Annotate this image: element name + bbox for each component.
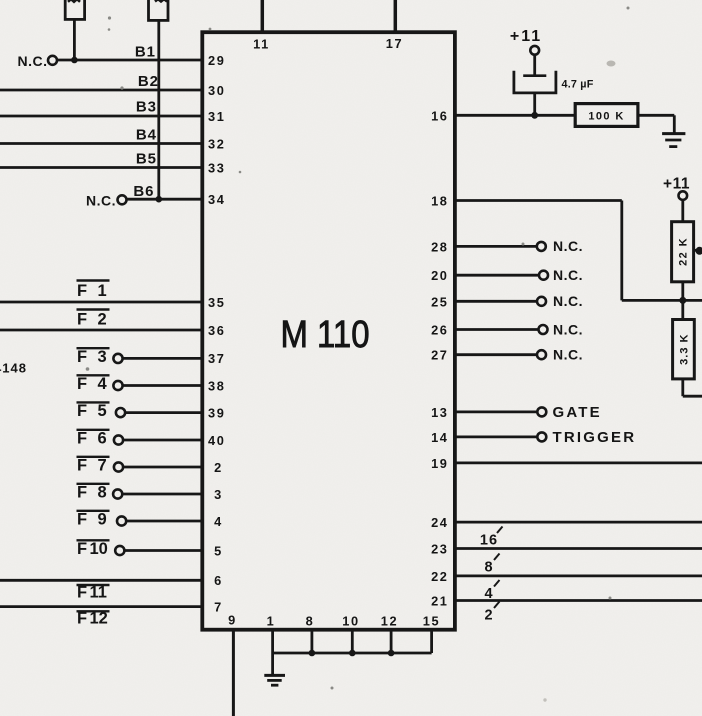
wire pin 16 to resistor R3 — [456, 114, 575, 117]
svg-text:23: 23 — [431, 542, 448, 557]
wire pin 8 stub — [310, 630, 313, 653]
svg-text:22: 22 — [431, 569, 448, 584]
wire pin N.C. row 3 — [456, 300, 537, 303]
resistor R5 3.3K body — [673, 320, 695, 379]
wire pin N.C. row 4 — [456, 328, 539, 331]
wire R5 to right edge — [681, 379, 684, 396]
svg-text:15: 15 — [423, 614, 440, 629]
svg-text:TRIGGER: TRIGGER — [553, 429, 637, 446]
wire stub from R4 to right edge — [694, 249, 702, 252]
wire R3 to ground — [638, 114, 674, 117]
svg-text:12: 12 — [381, 614, 398, 629]
resistor R3 100K body — [575, 104, 638, 127]
wire pin 11 (top) — [261, 0, 265, 33]
terminal N.C. circle at B1 — [48, 56, 57, 65]
svg-text:8: 8 — [484, 560, 493, 576]
junction pin12/bus — [388, 650, 395, 657]
terminal circle F10 — [115, 546, 124, 555]
wire pin N.C. row 1 — [456, 245, 537, 248]
svg-text:29: 29 — [208, 53, 225, 68]
svg-text:N.C.: N.C. — [86, 193, 116, 209]
terminal N.C. circle row 4 — [539, 325, 548, 334]
svg-text:M 110: M 110 — [281, 314, 370, 356]
svg-text:26: 26 — [431, 323, 448, 338]
wire B1 to pin 29 — [57, 59, 204, 62]
svg-text:N.C.: N.C. — [553, 293, 583, 309]
svg-text:16: 16 — [480, 533, 498, 549]
wire pin 24 to right edge — [456, 521, 702, 524]
ground GND1 — [662, 132, 685, 135]
wire pin 19 to right edge — [456, 461, 702, 464]
capacitor C1 top plate — [523, 74, 546, 77]
svg-text:8: 8 — [306, 614, 315, 629]
terminal circle F3 — [113, 354, 122, 363]
svg-text:11: 11 — [253, 37, 270, 52]
wire R4 to divider node — [681, 282, 684, 320]
svg-text:16: 16 — [431, 108, 448, 123]
resistor R2 label remnant — [155, 0, 167, 2]
terminal circle F7 — [114, 462, 123, 471]
svg-text:13: 13 — [431, 405, 448, 420]
svg-text:+11: +11 — [510, 28, 542, 45]
terminal circle F8 — [113, 489, 122, 498]
svg-text:20: 20 — [431, 268, 448, 283]
svg-text:25: 25 — [431, 294, 448, 309]
svg-text:24: 24 — [431, 515, 448, 530]
svg-text:22 K: 22 K — [678, 237, 690, 266]
terminal +11 top circle — [530, 46, 539, 55]
wire R2 down to node B6 — [157, 20, 160, 199]
wire F5 to IC — [125, 411, 204, 414]
wire bus to ground — [271, 653, 274, 675]
capacitor C1 bottom cup — [514, 71, 556, 93]
svg-text:40: 40 — [208, 433, 225, 448]
wire +11 to R4 — [681, 200, 684, 222]
wire F9 to IC — [126, 520, 204, 523]
terminal circle F4 — [113, 381, 122, 390]
wire F10 to IC — [124, 549, 204, 552]
wire F3 to IC — [123, 357, 204, 360]
svg-text:35: 35 — [208, 295, 225, 310]
resistor R1 label remnant — [68, 0, 80, 2]
svg-text:F10: F10 — [77, 540, 108, 558]
svg-text:5: 5 — [214, 543, 223, 558]
svg-text:14: 14 — [431, 430, 448, 445]
svg-text:N.C.: N.C. — [18, 53, 48, 69]
resistor R1 (top left, cut off at top) — [65, 0, 84, 19]
svg-text:3: 3 — [214, 487, 223, 502]
wire F2 to IC — [0, 329, 204, 332]
svg-text:31: 31 — [208, 109, 225, 124]
svg-text:10: 10 — [342, 614, 359, 629]
svg-text:27: 27 — [431, 348, 448, 363]
wire pin 15 stub — [430, 630, 433, 653]
wire B4 to pin 32 — [0, 142, 204, 145]
wire pin 18 route — [456, 199, 622, 202]
junction R1/B1 — [71, 57, 78, 64]
svg-text:B4: B4 — [136, 127, 157, 144]
junction pin10/bus — [349, 650, 356, 657]
wire pin 1 stub — [271, 630, 274, 653]
wire pin N.C. row 5 — [456, 353, 537, 356]
resistor R4 22K body — [672, 222, 694, 282]
svg-text:39: 39 — [208, 405, 225, 420]
ground GND2 — [264, 674, 285, 677]
svg-text:B1: B1 — [135, 44, 156, 61]
svg-text:1: 1 — [267, 614, 276, 629]
wire B5 to pin 33 — [0, 166, 204, 169]
svg-text:100 K: 100 K — [588, 110, 624, 122]
svg-text:3.3 K: 3.3 K — [679, 334, 691, 365]
svg-text:28: 28 — [431, 239, 448, 254]
terminal circle F5 — [116, 408, 125, 417]
terminal circle F6 — [114, 435, 123, 444]
junction R2/B6 — [156, 196, 163, 203]
svg-text:2: 2 — [484, 608, 493, 624]
svg-text:30: 30 — [208, 83, 225, 98]
svg-text:GATE: GATE — [553, 404, 602, 421]
svg-text:33: 33 — [208, 160, 225, 175]
terminal N.C. circle row 3 — [537, 297, 546, 306]
svg-text:B2: B2 — [138, 73, 159, 90]
wire GATE pin 13 — [456, 410, 538, 413]
speck marks (scan noise) — [86, 7, 630, 702]
svg-text:36: 36 — [208, 323, 225, 338]
svg-text:32: 32 — [208, 136, 225, 151]
terminal circle F9 — [117, 516, 126, 525]
wire F7 to IC — [123, 466, 204, 469]
svg-text:B6: B6 — [133, 183, 154, 200]
wire F8 to IC — [122, 493, 204, 496]
terminal GATE circle — [537, 407, 546, 416]
wire B3 to pin 31 — [0, 115, 204, 118]
svg-text:N.C.: N.C. — [553, 267, 583, 283]
wire B6 to pin 34 — [126, 198, 204, 201]
wire pin 22 to right edge — [456, 575, 702, 578]
svg-text:4: 4 — [214, 514, 223, 529]
wire pin 21 to right edge — [456, 599, 702, 602]
junction at right edge — [696, 247, 702, 255]
svg-text:B5: B5 — [136, 151, 157, 168]
svg-text:37: 37 — [208, 351, 225, 366]
svg-text:17: 17 — [386, 36, 403, 51]
svg-text:18: 18 — [431, 194, 448, 209]
svg-text:34: 34 — [208, 192, 225, 207]
junction divider node — [679, 297, 686, 304]
terminal TRIGGER circle — [537, 432, 546, 441]
svg-text:N.C.: N.C. — [553, 238, 583, 254]
wire C1 to node 16 — [533, 93, 536, 115]
svg-text:6: 6 — [214, 573, 223, 588]
wire pin 17 (top) — [394, 0, 398, 33]
wire F6 to IC — [123, 439, 204, 442]
resistor R2 (top, cut off at top) — [149, 0, 169, 20]
terminal N.C. circle at B6 — [118, 195, 127, 204]
wire +11 to capacitor C1 — [533, 55, 536, 75]
svg-text:19: 19 — [431, 456, 448, 471]
wire pin 23 to right edge — [456, 547, 702, 550]
wire pin N.C. row 2 — [456, 274, 539, 277]
IC U1 M110 body — [202, 32, 455, 630]
svg-text:38: 38 — [208, 378, 225, 393]
wire F12 to IC — [0, 605, 204, 608]
wire R1 to node B1 — [73, 19, 76, 60]
terminal N.C. circle row 2 — [539, 271, 548, 280]
svg-text:9: 9 — [228, 613, 237, 628]
wire F1 to IC — [0, 301, 204, 304]
wire B2 to pin 30 — [0, 89, 204, 92]
wire F4 to IC — [123, 384, 204, 387]
junction C1 on pin16 wire — [531, 112, 538, 119]
wire pin 12 stub — [390, 630, 393, 653]
svg-text:7: 7 — [214, 599, 223, 614]
svg-text:N.C.: N.C. — [553, 321, 583, 337]
wire pin 9 to bottom edge — [232, 630, 235, 716]
wire TRIGGER pin 14 — [456, 435, 538, 438]
terminal N.C. circle row 1 — [537, 242, 546, 251]
svg-text:4: 4 — [484, 586, 493, 602]
svg-text:B3: B3 — [136, 99, 157, 116]
svg-text:N.C.: N.C. — [553, 347, 583, 363]
wire F11 to IC — [0, 579, 204, 582]
svg-text:4148: 4148 — [0, 361, 27, 376]
svg-text:4.7 µF: 4.7 µF — [562, 79, 594, 91]
terminal N.C. circle row 5 — [537, 350, 546, 359]
svg-text:+11: +11 — [663, 176, 690, 193]
wire ground bus — [273, 652, 432, 655]
svg-text:2: 2 — [214, 460, 223, 475]
wire pin 10 stub — [351, 630, 354, 653]
junction pin8/bus — [309, 650, 316, 657]
svg-text:21: 21 — [431, 594, 448, 609]
terminal +11 right circle — [679, 191, 688, 200]
